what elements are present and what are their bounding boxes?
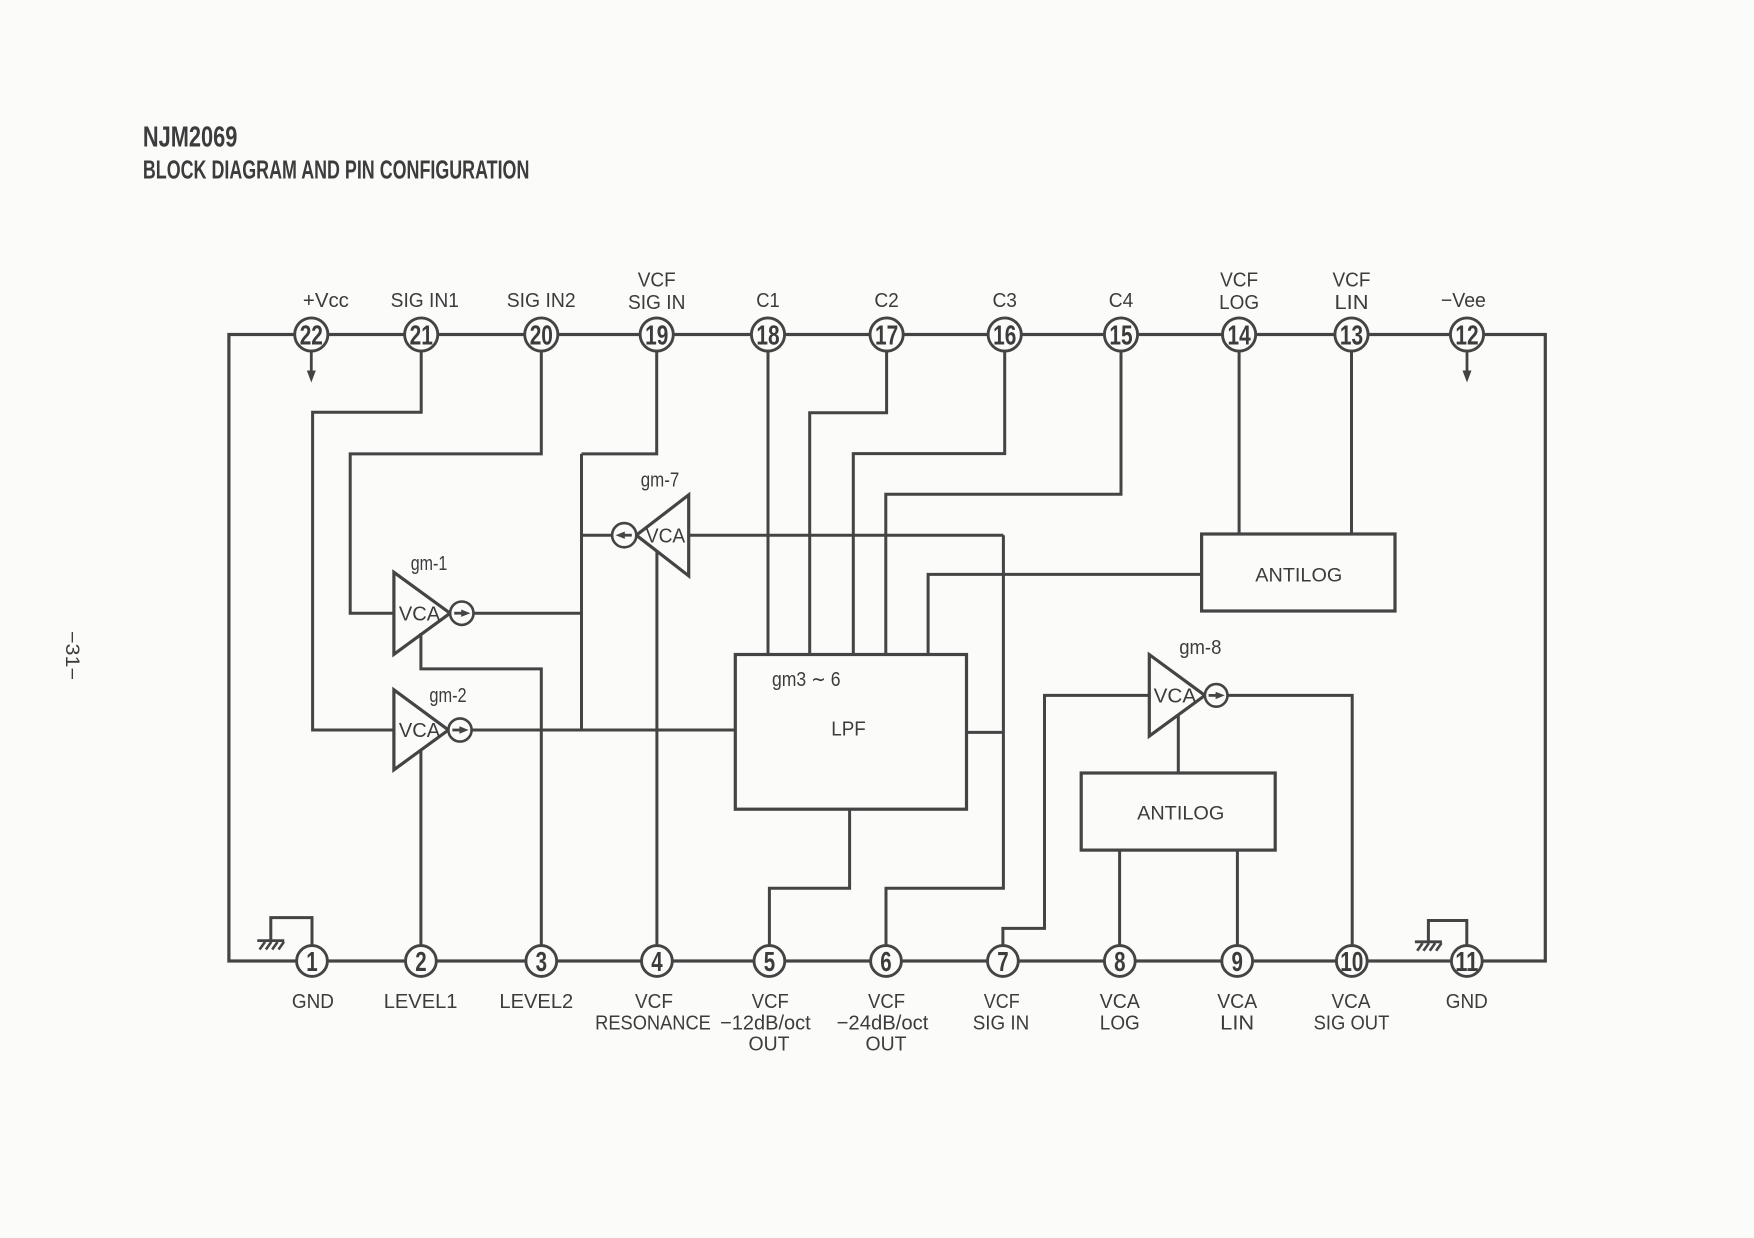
wire: pin 17 (C2) to LPF	[810, 351, 887, 654]
pin 17	[870, 318, 903, 351]
svg-text:18: 18	[756, 320, 779, 351]
wire: pin 19 (VCF SIG IN) jog to summing column	[582, 351, 657, 454]
svg-text:21: 21	[410, 320, 433, 351]
svg-text:gm-1: gm-1	[411, 553, 448, 575]
wire: ANTILOG U2 to pin 9	[1236, 850, 1239, 946]
svg-text:19: 19	[645, 320, 668, 351]
svg-text:17: 17	[875, 320, 898, 351]
svg-text:LOG: LOG	[1219, 291, 1259, 314]
svg-text:ANTILOG: ANTILOG	[1255, 565, 1342, 587]
svg-text:LEVEL1: LEVEL1	[384, 990, 458, 1013]
svg-text:VCF: VCF	[868, 990, 905, 1013]
op-amp VCA gm-7	[612, 469, 689, 576]
svg-text:GND: GND	[292, 990, 334, 1013]
ANTILOG block U1	[1202, 534, 1395, 611]
svg-text:OUT: OUT	[866, 1033, 907, 1056]
svg-text:12: 12	[1455, 320, 1478, 351]
pin 5	[754, 946, 785, 978]
wire: gm-2 control tap to pin 2	[419, 749, 422, 946]
LPF block gm3~6	[735, 655, 966, 810]
wire: LPF bottom tap to pin 5	[769, 809, 849, 946]
pin 14	[1223, 318, 1256, 351]
svg-text:LOG: LOG	[1100, 1012, 1140, 1035]
svg-text:−31−: −31−	[61, 631, 82, 680]
pin 20	[525, 318, 558, 351]
wire: LPF control line to ANTILOG U1	[928, 574, 1202, 654]
svg-text:GND: GND	[1446, 990, 1488, 1013]
wire: pin 1 ground hook	[271, 918, 312, 946]
svg-text:3: 3	[536, 946, 547, 977]
svg-text:VCF: VCF	[1220, 269, 1258, 292]
pin 22	[295, 318, 328, 351]
svg-text:+Vcc: +Vcc	[303, 289, 349, 312]
pin 19	[640, 318, 673, 351]
pin 2	[406, 946, 437, 978]
pin 13	[1335, 318, 1368, 351]
+Vcc supply arrow at pin 22	[307, 351, 316, 382]
wire: pin 16 (C3) to LPF	[853, 351, 1004, 654]
pin 11	[1451, 946, 1482, 978]
pin 3	[526, 946, 557, 978]
svg-text:LIN: LIN	[1220, 1012, 1254, 1035]
svg-text:SIG IN: SIG IN	[973, 1012, 1030, 1035]
svg-text:VCA: VCA	[1332, 990, 1371, 1013]
pin 8	[1104, 946, 1135, 978]
svg-text:C4: C4	[1109, 289, 1134, 312]
wire: LPF output column down to pin 6	[886, 535, 1003, 946]
svg-text:VCF: VCF	[984, 990, 1020, 1013]
pin 12	[1450, 318, 1483, 351]
svg-text:LPF: LPF	[831, 718, 866, 741]
svg-text:VCA: VCA	[1100, 990, 1140, 1013]
svg-text:VCA: VCA	[399, 720, 441, 742]
svg-text:4: 4	[651, 946, 663, 977]
svg-text:C1: C1	[756, 289, 780, 312]
svg-text:VCA: VCA	[1154, 686, 1197, 708]
ground symbol at pin 11	[1415, 942, 1442, 951]
pin 4	[642, 946, 673, 978]
wire: LPF output	[967, 731, 1004, 734]
svg-text:gm-2: gm-2	[429, 685, 466, 707]
pin 9	[1222, 946, 1253, 978]
wire: ANTILOG U2 to pin 8	[1118, 850, 1121, 946]
svg-text:VCA: VCA	[646, 525, 686, 547]
wire: pin 7 (VCF SIG IN) to gm-8 input	[1003, 695, 1149, 945]
wire: gm-7 output stub into summing node	[582, 534, 613, 537]
ANTILOG block U2	[1081, 773, 1275, 850]
op-amp VCA gm-2	[394, 685, 472, 770]
svg-text:5: 5	[764, 946, 775, 977]
svg-text:1: 1	[306, 946, 317, 977]
svg-text:SIG OUT: SIG OUT	[1314, 1012, 1390, 1035]
svg-text:9: 9	[1232, 946, 1243, 977]
IC package outline U0	[229, 335, 1545, 962]
svg-text:C2: C2	[874, 289, 899, 312]
wire: gm-8 control tap to ANTILOG U2	[1177, 716, 1180, 773]
svg-text:VCA: VCA	[1217, 990, 1257, 1013]
pin 21	[405, 318, 438, 351]
svg-text:−24dB/oct: −24dB/oct	[837, 1012, 929, 1035]
svg-text:2: 2	[415, 946, 426, 977]
svg-text:SIG IN1: SIG IN1	[391, 289, 459, 312]
svg-text:−Vee: −Vee	[1441, 289, 1486, 312]
svg-text:gm3 ∼ 6: gm3 ∼ 6	[772, 668, 841, 691]
svg-text:VCF: VCF	[638, 269, 676, 292]
svg-text:LEVEL2: LEVEL2	[499, 990, 573, 1013]
svg-text:6: 6	[880, 946, 891, 977]
svg-text:14: 14	[1228, 320, 1252, 351]
svg-text:VCF: VCF	[752, 990, 789, 1013]
svg-text:16: 16	[993, 320, 1016, 351]
svg-text:C3: C3	[992, 289, 1017, 312]
wire: pin 21 to gm-2 input	[313, 351, 422, 730]
wire: pin 20 to gm-1 input	[350, 351, 541, 613]
svg-text:11: 11	[1455, 946, 1478, 977]
wire: gm-1 control tap to pin 3	[421, 633, 541, 946]
wire: gm-8 output to pin 10	[1228, 695, 1353, 945]
wire: pin 14 (VCF LOG) to ANTILOG U1	[1238, 351, 1241, 534]
pin 18	[751, 318, 784, 351]
svg-text:RESONANCE: RESONANCE	[595, 1012, 711, 1035]
wire: summing node column	[580, 454, 583, 730]
svg-text:OUT: OUT	[749, 1033, 790, 1056]
op-amp VCA gm-8	[1149, 637, 1227, 736]
svg-text:VCF: VCF	[1333, 269, 1371, 292]
svg-text:BLOCK DIAGRAM AND PIN CONFIGUR: BLOCK DIAGRAM AND PIN CONFIGURATION	[143, 156, 530, 184]
wire: pin 18 (C1) to LPF	[767, 351, 770, 654]
pin 1	[297, 946, 328, 978]
wire: gm-1 output to summing node	[473, 612, 581, 615]
svg-text:22: 22	[300, 320, 323, 351]
svg-text:8: 8	[1114, 946, 1125, 977]
svg-text:VCA: VCA	[399, 603, 441, 625]
svg-text:ANTILOG: ANTILOG	[1137, 803, 1224, 825]
svg-text:SIG IN: SIG IN	[628, 291, 686, 314]
svg-text:−12dB/oct: −12dB/oct	[720, 1012, 811, 1035]
svg-text:20: 20	[530, 320, 553, 351]
svg-text:gm-7: gm-7	[641, 469, 680, 491]
pin 15	[1104, 318, 1137, 351]
pin 10	[1336, 946, 1367, 978]
page number -31-	[61, 631, 82, 680]
svg-text:10: 10	[1340, 946, 1363, 977]
svg-text:VCF: VCF	[635, 990, 673, 1013]
svg-text:NJM2069: NJM2069	[143, 121, 238, 153]
-Vee supply arrow at pin 12	[1463, 351, 1472, 382]
svg-text:SIG IN2: SIG IN2	[507, 289, 576, 312]
wire: pin 15 (C4) to LPF	[886, 351, 1121, 654]
svg-text:LIN: LIN	[1335, 291, 1369, 314]
svg-text:7: 7	[997, 946, 1008, 977]
wire: gm-2 output / summing node to LPF input	[472, 729, 736, 732]
pin 7	[988, 946, 1019, 978]
ground symbol at pin 1	[257, 941, 284, 950]
wire: LPF output node to gm-7 feedback input	[689, 534, 1004, 537]
op-amp VCA gm-1	[394, 553, 474, 654]
pin 6	[871, 946, 902, 978]
svg-text:13: 13	[1340, 320, 1363, 351]
wire: pin 11 ground hook	[1428, 921, 1466, 946]
wire: pin 13 (VCF LIN) to ANTILOG U1	[1350, 351, 1353, 534]
pin 16	[988, 318, 1021, 351]
svg-text:gm-8: gm-8	[1179, 637, 1221, 659]
svg-text:15: 15	[1109, 320, 1132, 351]
wire: gm-7 control tap to pin 4	[655, 551, 658, 946]
